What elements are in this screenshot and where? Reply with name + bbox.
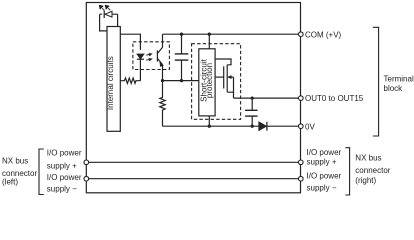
I/O power supply + bus wire — [89, 161, 299, 163]
label I/O power supply + right — [307, 148, 342, 167]
svg-text:supply −: supply − — [47, 185, 77, 194]
unit enclosure box — [86, 3, 300, 193]
svg-text:connector: connector — [355, 166, 390, 175]
terminal I/O power supply - left — [84, 176, 89, 181]
short-circuit protection dashed box — [192, 44, 241, 120]
wire phototransistor emitter to short-circuit protection input — [163, 70, 199, 81]
resistor R2 — [160, 81, 165, 127]
diode D2 — [259, 122, 267, 131]
junction dot — [161, 79, 164, 82]
label I/O power supply - right — [307, 172, 342, 193]
label Terminal block — [384, 75, 414, 94]
terminal I/O power supply + left — [84, 160, 89, 165]
svg-text:NX bus: NX bus — [355, 153, 381, 162]
terminal I/O power supply - right — [299, 176, 304, 181]
internal circuits box U1 — [107, 27, 120, 132]
svg-text:Internal circuits: Internal circuits — [106, 56, 115, 110]
wire opto LED cathode to R1 — [139, 59, 141, 80]
I/O power supply - bus wire — [89, 178, 299, 180]
svg-text:COM (+V): COM (+V) — [305, 30, 342, 39]
svg-text:supply +: supply + — [307, 158, 337, 167]
terminal COM (+V) — [299, 32, 304, 37]
junction dot — [208, 33, 211, 36]
junction dot — [208, 125, 211, 128]
bracket terminal block — [373, 27, 379, 136]
svg-text:Terminal: Terminal — [384, 75, 414, 84]
optocoupler U2 phototransistor — [157, 34, 163, 69]
svg-text:I/O power: I/O power — [47, 148, 82, 157]
svg-text:supply −: supply − — [307, 184, 337, 193]
resistor R1 — [120, 78, 140, 83]
transistor Q1 (MOSFET) — [215, 59, 233, 98]
capacitor C1 — [175, 34, 189, 80]
label Short-circuit protection — [199, 58, 214, 101]
svg-text:block: block — [384, 84, 404, 93]
+V rail wire to COM — [163, 33, 299, 35]
0V rail wire — [163, 125, 299, 127]
svg-text:I/O power: I/O power — [47, 173, 82, 182]
svg-text:(right): (right) — [355, 176, 376, 185]
optocoupler U2 dashed box — [133, 42, 170, 70]
svg-text:supply +: supply + — [47, 161, 77, 170]
junction dot — [251, 125, 254, 128]
capacitor C2 — [245, 98, 258, 126]
svg-text:(left): (left) — [2, 177, 18, 186]
bracket right NX bus connector — [345, 148, 349, 195]
indicator LED D1 emission arrows — [99, 5, 110, 10]
svg-text:I/O power: I/O power — [307, 148, 342, 157]
junction dot — [180, 33, 183, 36]
svg-text:0V: 0V — [305, 123, 315, 132]
svg-text:protection: protection — [205, 63, 214, 98]
svg-text:NX bus: NX bus — [2, 157, 28, 166]
label I/O power supply + left — [47, 148, 82, 170]
wire U3 bottom to 0V rail — [208, 116, 210, 126]
short-circuit protection block U3 — [199, 49, 215, 116]
terminal OUT0 to OUT15 — [299, 96, 304, 101]
junction dot — [251, 96, 254, 99]
wire from internal circuits to opto LED anode — [120, 34, 140, 50]
bracket left NX bus connector — [39, 149, 44, 195]
indicator LED D1 — [104, 10, 112, 18]
optocoupler U2 LED — [137, 54, 144, 59]
label NX bus connector (right) — [355, 153, 390, 185]
terminal 0V — [299, 124, 304, 129]
svg-text:OUT0 to OUT15: OUT0 to OUT15 — [305, 94, 364, 103]
label I/O power supply - left — [47, 173, 82, 194]
junction dot — [180, 79, 183, 82]
indicator LED D1 loop wire — [100, 14, 118, 31]
OUT rail wire — [234, 97, 299, 99]
wire +V rail to U3 top — [208, 34, 210, 49]
optocoupler U2 light arrows — [146, 53, 152, 61]
label NX bus connector (left) — [2, 157, 37, 187]
svg-text:I/O power: I/O power — [307, 172, 342, 181]
terminal I/O power supply + right — [299, 160, 304, 165]
